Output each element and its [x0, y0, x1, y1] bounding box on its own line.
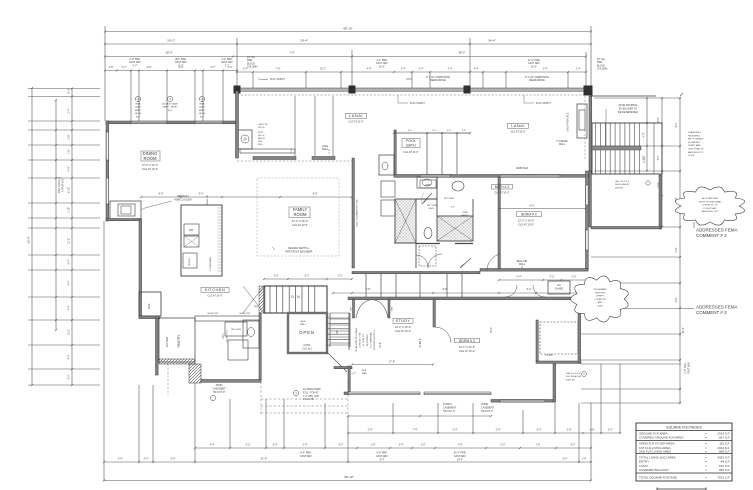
svg-text:DOUBLE CASE-: DOUBLE CASE-	[162, 103, 179, 106]
svg-text:2' OVERHANG: 2' OVERHANG	[209, 256, 212, 271]
svg-text:2'-4": 2'-4"	[368, 429, 373, 432]
svg-text:WALL: WALL	[322, 148, 329, 151]
leader line fema 2	[693, 222, 695, 228]
svg-text:4'-8": 4'-8"	[675, 247, 678, 252]
svg-text:ENCL.: ENCL.	[429, 208, 436, 210]
svg-text:ROOM: ROOM	[293, 212, 307, 217]
svg-text:=: =	[705, 450, 707, 454]
svg-text:3'-0" HANDRAIL: 3'-0" HANDRAIL	[369, 331, 372, 348]
svg-text:FLAT SOFFIT: FLAT SOFFIT	[270, 78, 285, 81]
dimension line kitchen interior	[141, 196, 352, 198]
wall right outer lower	[578, 299, 581, 363]
svg-text:LANAI: LANAI	[511, 123, 525, 128]
svg-text:CLG AT 10'-0": CLG AT 10'-0"	[403, 151, 418, 154]
svg-text:R LANDING: R LANDING	[688, 141, 700, 144]
svg-text:9'-4": 9'-4"	[380, 458, 385, 461]
svg-text:6'-2": 6'-2"	[179, 64, 184, 67]
svg-text:CLG AT 10'-0": CLG AT 10'-0"	[142, 167, 158, 171]
dashed line below pantry	[167, 364, 169, 395]
svg-text:=: =	[705, 475, 707, 479]
wc toilet room	[379, 155, 394, 175]
counter wine cooler	[110, 201, 141, 219]
svg-text:RFG: RFG	[258, 144, 263, 146]
svg-text:LANAI: LANAI	[349, 113, 363, 118]
svg-text:6'-2": 6'-2"	[501, 444, 506, 447]
svg-text:3'-4": 3'-4"	[399, 444, 404, 447]
dimension tick row top-middle	[237, 71, 470, 73]
staircase upper right	[592, 123, 662, 174]
svg-text:BE DETERMINED: BE DETERMINED	[618, 111, 638, 114]
hatched corner block entry	[189, 364, 201, 383]
svg-text:3'-4": 3'-4"	[453, 429, 458, 432]
laundry boxes hall	[381, 181, 395, 197]
label linen	[420, 180, 436, 188]
svg-text:2'-0": 2'-0"	[550, 276, 555, 279]
svg-text:WALL: WALL	[559, 143, 566, 146]
svg-text:6'-10": 6'-10"	[68, 187, 71, 193]
pantry room	[159, 318, 195, 362]
svg-text:4'-0": 4'-0"	[643, 132, 646, 137]
handrail diagonal at entry steps	[327, 352, 347, 372]
svg-text:8'-0": 8'-0"	[159, 193, 164, 196]
svg-text:PER TRUSS ENGINEER: PER TRUSS ENGINEER	[286, 250, 313, 253]
svg-text:2'-4": 2'-4"	[401, 68, 406, 71]
bath2 toilet	[424, 228, 432, 239]
svg-text:FLAT SOFFIT: FLAT SOFFIT	[410, 102, 425, 105]
svg-text:1'-10": 1'-10"	[68, 207, 71, 213]
svg-text:353 S.F.: 353 S.F.	[719, 468, 730, 472]
vertical line right of stairs	[646, 98, 648, 171]
svg-text:7'-8": 7'-8"	[536, 444, 541, 447]
porch dashed steps	[261, 398, 348, 400]
hatched wall left of dn stairs	[259, 286, 265, 313]
wall foyer	[139, 316, 160, 319]
bath2 sink oval	[452, 181, 464, 191]
svg-text:2'-4": 2'-4"	[543, 68, 548, 71]
svg-text:1'-4": 1'-4"	[576, 68, 581, 71]
beam 8x24 composite above lanai	[237, 88, 591, 91]
svg-text:WALL: WALL	[300, 323, 307, 326]
svg-text:6'-2": 6'-2"	[571, 444, 576, 447]
landing room east walls	[659, 175, 661, 229]
svg-text:2ND FLR LIVING AREA: 2ND FLR LIVING AREA	[639, 450, 671, 454]
pool bath west wall	[394, 130, 396, 174]
svg-text:41'-4": 41'-4"	[681, 327, 685, 334]
dimension tick row top-right	[470, 71, 586, 73]
svg-text:BUILDER NOTES 1: BUILDER NOTES 1	[374, 329, 376, 349]
svg-text:WALL: WALL	[362, 372, 368, 375]
vertical drop lines from window ticks	[130, 71, 132, 122]
island dishwasher box	[184, 224, 199, 235]
svg-text:=: =	[705, 468, 707, 472]
utility closet	[228, 340, 248, 360]
wall left outer with windows	[106, 121, 109, 221]
svg-text:12'-0" X 14'-0": 12'-0" X 14'-0"	[518, 219, 534, 223]
svg-text:2'-7": 2'-7"	[211, 66, 216, 69]
center staircase dn	[264, 286, 327, 313]
svg-text:999 S.F.: 999 S.F.	[719, 450, 730, 454]
wall bdrm3 bay south	[348, 392, 420, 395]
wall pool bath and lanai sill	[394, 175, 591, 178]
svg-text:3'-6": 3'-6"	[274, 275, 279, 278]
svg-text:WALL: WALL	[519, 263, 526, 266]
open stairwell box	[288, 313, 327, 353]
svg-text:FOYER: FOYER	[165, 336, 169, 347]
svg-text:49 S.F.: 49 S.F.	[721, 459, 731, 463]
svg-text:CODE: CODE	[688, 155, 695, 157]
svg-text:5'-4": 5'-4"	[68, 259, 71, 264]
arch cased opening to study	[356, 300, 388, 319]
wall pantry west	[156, 318, 159, 375]
svg-text:2868 SH: 2868 SH	[615, 187, 624, 189]
dashed soffit line under beam	[237, 94, 591, 96]
svg-text:12 FEET ABV: 12 FEET ABV	[703, 207, 717, 210]
diagonal brace lines at stair corner	[243, 286, 264, 313]
svg-text:2'-4": 2'-4"	[118, 458, 123, 461]
svg-text:2'-4": 2'-4"	[419, 68, 424, 71]
svg-text:UTIL: UTIL	[222, 333, 225, 339]
svg-text:4'-0": 4'-0"	[68, 354, 71, 359]
wall bedroom2 south bell air wall	[480, 269, 588, 272]
bath2 door leaf 3080	[422, 193, 432, 204]
wall bedroom2 west	[498, 177, 500, 271]
svg-text:BATH: BATH	[406, 144, 416, 148]
svg-text:5'-0": 5'-0"	[246, 444, 251, 447]
svg-text:BDB: BDB	[362, 370, 367, 372]
svg-text:13'-0" X 12'-6": 13'-0" X 12'-6"	[395, 325, 411, 329]
svg-text:20'-4": 20'-4"	[457, 458, 463, 461]
pantry south hatched wall	[159, 359, 195, 364]
svg-text:1'-4": 1'-4"	[582, 458, 587, 461]
svg-text:10 FEET 10" TO: 10 FEET 10" TO	[702, 205, 718, 207]
svg-text:BMA: BMA	[136, 103, 141, 106]
svg-text:BATH # 2: BATH # 2	[495, 185, 510, 189]
svg-text:BEAM ABOVE: BEAM ABOVE	[529, 79, 545, 82]
svg-text:8'-2": 8'-2"	[68, 329, 71, 334]
svg-text:2'-8": 2'-8"	[567, 429, 572, 432]
svg-text:7'-4": 7'-4"	[291, 149, 293, 154]
svg-text:OPEN: OPEN	[299, 330, 315, 335]
svg-text:10'-2": 10'-2"	[379, 65, 385, 68]
wall east of bay	[553, 364, 556, 402]
svg-text:36'-2": 36'-2"	[458, 51, 465, 55]
leader line fema 3	[624, 308, 694, 310]
svg-text:68'-10": 68'-10"	[344, 475, 353, 479]
svg-text:4'-0": 4'-0"	[408, 130, 413, 132]
arch jamb walls	[353, 299, 355, 318]
island range box	[184, 236, 199, 247]
svg-text:5'-8": 5'-8"	[171, 458, 176, 461]
svg-text:SGL HG ALUM: SGL HG ALUM	[566, 375, 581, 378]
svg-text:PDS: PDS	[258, 141, 263, 143]
svg-text:ROOM: ROOM	[143, 156, 157, 161]
revision cloud fema comment 2	[675, 187, 744, 225]
svg-text:AND: AND	[598, 301, 603, 304]
svg-text:2'-8": 2'-8"	[590, 429, 595, 432]
svg-text:COVERED GROUND FLR AREA: COVERED GROUND FLR AREA	[639, 435, 683, 439]
svg-text:TEMP: TEMP	[462, 212, 468, 214]
svg-text:CLG AT 10'-0": CLG AT 10'-0"	[459, 349, 475, 353]
refrigerator closet	[139, 292, 161, 316]
svg-text:3'-4": 3'-4"	[144, 458, 149, 461]
svg-text:=: =	[705, 435, 707, 439]
dimension tick row bottom tier upper	[348, 432, 620, 434]
svg-text:ON DEMAND: ON DEMAND	[593, 288, 607, 291]
svg-text:2'-3": 2'-3"	[451, 207, 455, 209]
svg-text:HOOD: HOOD	[258, 127, 265, 129]
svg-text:STAIR/GUA +: STAIR/GUA +	[688, 131, 702, 134]
circled number 4 bottom	[293, 390, 298, 395]
svg-text:3'-4": 3'-4"	[608, 429, 613, 432]
wall hall south / closets	[352, 272, 480, 274]
svg-text:PANTRY: PANTRY	[177, 334, 181, 348]
svg-text:2'-6": 2'-6"	[338, 275, 343, 278]
svg-text:ENTRY: ENTRY	[639, 459, 649, 463]
svg-text:COLUMN: COLUMN	[597, 68, 608, 71]
svg-text:6'-0": 6'-0"	[303, 444, 308, 447]
svg-text:BMA: BMA	[200, 103, 205, 106]
svg-text:SEA LEVEL 13'0": SEA LEVEL 13'0"	[701, 210, 718, 213]
kitchen counter south	[195, 316, 261, 321]
svg-text:CLG AT 10'-0": CLG AT 10'-0"	[226, 329, 229, 342]
hall closet door arcs east	[505, 285, 517, 297]
column 16x16 cmu block 4	[584, 86, 593, 96]
svg-text:19'-4": 19'-4"	[300, 39, 308, 43]
svg-text:12 TR: 12 TR	[644, 157, 646, 163]
svg-text:8'-0": 8'-0"	[530, 205, 535, 208]
svg-text:3'-0": 3'-0"	[273, 444, 278, 447]
svg-text:667 S.F.: 667 S.F.	[719, 435, 730, 439]
outdoor kitchen counter	[240, 149, 295, 153]
svg-text:8'-2": 8'-2"	[675, 122, 678, 127]
svg-text:10'-2": 10'-2"	[419, 342, 422, 348]
svg-text:4'-8": 4'-8"	[147, 66, 152, 69]
svg-text:2'-8": 2'-8"	[371, 444, 376, 447]
svg-text:RE: IF TREADS: RE: IF TREADS	[688, 138, 704, 141]
svg-text:MICRO: MICRO	[189, 258, 191, 266]
dimension line 18'-2 / 36'-2 top tier3	[105, 56, 586, 58]
svg-text:GBL 2'-8 X 6'-8: GBL 2'-8 X 6'-8	[615, 181, 630, 183]
svg-text:12'-0" X 14'-6": 12'-0" X 14'-6"	[459, 345, 475, 349]
svg-text:AND BUILD TO: AND BUILD TO	[688, 151, 704, 154]
svg-text:REF.: REF.	[147, 303, 151, 309]
wall family room north load wall	[253, 157, 296, 160]
svg-text:8'-0": 8'-0"	[200, 116, 205, 118]
svg-text:CHASE: CHASE	[555, 287, 564, 290]
svg-text:3'-2": 3'-2"	[657, 155, 660, 160]
svg-text:17'-0" X 18'-0": 17'-0" X 18'-0"	[292, 219, 308, 223]
revision cloud fema comment 3	[571, 276, 629, 322]
bath2 closet rect	[419, 246, 436, 266]
svg-text:6'-2": 6'-2"	[339, 444, 344, 447]
svg-text:GAS FIREPLACE: GAS FIREPLACE	[567, 112, 570, 131]
svg-text:9'-8": 9'-8"	[313, 193, 318, 196]
svg-text:CAST ABV.: CAST ABV.	[300, 455, 312, 458]
svg-text:3'-8": 3'-8"	[675, 297, 678, 302]
dimension line left tier2	[55, 100, 57, 330]
bath2 walls	[436, 177, 438, 216]
bdrm3 door leaf diagonal	[460, 258, 471, 268]
svg-text:STUDY: STUDY	[396, 319, 411, 323]
square footage table	[636, 423, 732, 481]
svg-text:BDB: BDB	[301, 321, 306, 323]
svg-text:GBL 3'-0 X 5'-0: GBL 3'-0 X 5'-0	[566, 373, 582, 375]
svg-text:13 RIS AT 7 3/4": 13 RIS AT 7 3/4"	[359, 332, 362, 348]
svg-text:A/C PLATFORM: A/C PLATFORM	[702, 197, 718, 200]
svg-text:12 TR AT 10": 12 TR AT 10"	[362, 333, 365, 346]
svg-text:=: =	[705, 459, 707, 463]
interior dim row above study	[333, 292, 580, 294]
svg-text:UP: UP	[335, 330, 339, 334]
svg-text:3'-4": 3'-4"	[474, 68, 479, 71]
dimension line bottom tier2	[104, 461, 591, 463]
right extension lines	[594, 97, 681, 99]
wall right outer bedroom2	[586, 171, 589, 270]
svg-text:3'-0": 3'-0"	[572, 276, 577, 279]
svg-text:BEAM ABOVE: BEAM ABOVE	[430, 79, 446, 82]
svg-text:CL BH: CL BH	[546, 354, 553, 357]
svg-text:TEMPT ARE: TEMPT ARE	[688, 144, 701, 147]
svg-text:MENT: MENT	[135, 110, 142, 112]
svg-text:KITCHEN: KITCHEN	[205, 287, 225, 292]
svg-text:4'-0": 4'-0"	[68, 166, 71, 171]
svg-text:2'-4": 2'-4"	[447, 130, 452, 132]
svg-text:SQUARE FOOTAGES: SQUARE FOOTAGES	[666, 426, 702, 430]
bath2 shower hatched right	[437, 216, 473, 241]
pool bath partition walls	[426, 133, 428, 174]
column 16x16 cmu block 3	[464, 86, 471, 94]
wall porch front	[201, 380, 261, 383]
svg-text:HD AT 8'-0": HD AT 8'-0"	[213, 391, 225, 394]
svg-text:CLG AT 10'-0": CLG AT 10'-0"	[207, 295, 222, 298]
svg-text:3050 SH: 3050 SH	[566, 379, 575, 381]
exterior entry steps left of study	[330, 313, 350, 343]
dimension line right inner tier	[661, 98, 663, 227]
bay window dim line	[348, 415, 491, 417]
svg-text:10080 SGD: 10080 SGD	[516, 167, 529, 170]
dimension extension lines top	[104, 26, 106, 121]
svg-text:CLG AT 10'-0": CLG AT 10'-0"	[494, 192, 509, 195]
family room tray ceiling dashed	[257, 178, 339, 256]
wall west of entry	[259, 313, 261, 380]
dimension tick row bottom tier1	[195, 447, 591, 449]
kitchen pantry cabinets	[225, 322, 247, 336]
svg-text:CLG AT 10'-0": CLG AT 10'-0"	[348, 121, 363, 124]
svg-text:2'-4": 2'-4"	[432, 130, 437, 132]
dimension line right outer	[679, 98, 681, 403]
svg-text:WTR HTR: WTR HTR	[595, 292, 606, 294]
window labels above dining with circled 4	[135, 96, 140, 101]
svg-text:9'-4": 9'-4"	[527, 288, 532, 291]
svg-text:2'-8": 2'-8"	[109, 66, 114, 69]
svg-text:9'-4": 9'-4"	[517, 276, 522, 279]
svg-text:2'-7": 2'-7"	[225, 64, 230, 67]
svg-text:2'-8": 2'-8"	[462, 130, 467, 132]
wall foyer inner west	[139, 219, 142, 318]
dimension line 68'-10 overall top	[105, 31, 591, 33]
svg-text:HD AT 8'-0": HD AT 8'-0"	[443, 410, 455, 413]
svg-text:4'-4": 4'-4"	[68, 280, 71, 285]
powder room fixtures	[248, 328, 255, 337]
svg-text:FLAT SOFFIT: FLAT SOFFIT	[536, 102, 551, 105]
svg-text:19'-2": 19'-2"	[167, 39, 175, 43]
svg-text:5'-2": 5'-2"	[305, 275, 310, 278]
dimension tick row top-left windows	[105, 70, 237, 72]
dimension hall bottom	[499, 279, 588, 281]
svg-text:W/ NOSING: W/ NOSING	[367, 334, 369, 346]
svg-text:CLG AT 10'-0": CLG AT 10'-0"	[395, 329, 411, 333]
column 16x16 cmu block 1	[234, 86, 241, 94]
svg-text:SD LS: SD LS	[258, 135, 265, 137]
svg-text:CASE-: CASE-	[199, 106, 206, 109]
svg-text:7'-4": 7'-4"	[413, 429, 418, 432]
svg-text:=: =	[705, 464, 707, 468]
svg-text:2'-8": 2'-8"	[68, 134, 71, 139]
svg-text:1'-0": 1'-0"	[289, 51, 294, 55]
bath2 shower X right	[437, 216, 473, 241]
svg-text:CLG AL2: CLG AL2	[302, 347, 312, 350]
svg-text:6'-0": 6'-0"	[68, 88, 71, 93]
svg-text:CAST ABV.: CAST ABV.	[688, 362, 691, 374]
svg-text:2'-8": 2'-8"	[366, 288, 371, 291]
wall vertical frame at x237	[236, 91, 239, 158]
svg-text:BOWL YR: BOWL YR	[207, 195, 209, 205]
svg-text:68'-10": 68'-10"	[343, 27, 352, 31]
dimension 8'-0 in bdrm2	[499, 208, 586, 210]
svg-text:POOL: POOL	[406, 139, 416, 143]
svg-text:WINE COOLER: WINE COOLER	[174, 198, 191, 201]
svg-text:8'-0": 8'-0"	[168, 110, 173, 112]
svg-text:LANAI: LANAI	[639, 464, 648, 468]
wall west of hall built-in cabinetry	[352, 158, 354, 268]
pool bath dim texts	[393, 132, 471, 134]
svg-text:7'-8": 7'-8"	[276, 68, 281, 71]
wall south right section	[491, 400, 555, 403]
grill alcove outdoor kitchen	[238, 130, 252, 149]
svg-text:BUILT-IN CABINETRY TBD: BUILT-IN CABINETRY TBD	[356, 199, 359, 226]
svg-text:VERIFY: VERIFY	[596, 296, 604, 298]
svg-text:17'-6" X 13'-2": 17'-6" X 13'-2"	[142, 163, 158, 167]
svg-text:3'-4": 3'-4"	[68, 374, 71, 379]
svg-text:8'-6": 8'-6"	[443, 288, 448, 291]
svg-text:SET TEMP: SET TEMP	[444, 198, 455, 200]
dashed line lanai floor	[237, 160, 352, 162]
svg-text:2'-7": 2'-7"	[122, 66, 127, 69]
svg-text:HD AT: HD AT	[199, 112, 206, 115]
svg-text:CLG AT 10'-0": CLG AT 10'-0"	[292, 223, 308, 227]
svg-text:3/8" TEMP: 3/8" TEMP	[427, 205, 438, 207]
svg-text:2'-7": 2'-7"	[133, 64, 138, 67]
svg-text:MENT: MENT	[199, 110, 206, 112]
svg-text:GRILL W/: GRILL W/	[258, 124, 268, 126]
dimension line 68'-10 overall bottom	[104, 480, 591, 482]
svg-text:BDRM # 3: BDRM # 3	[459, 339, 475, 343]
svg-text:TOP AT 8'-0": TOP AT 8'-0"	[62, 178, 65, 192]
svg-text:4'-0": 4'-0"	[367, 68, 372, 71]
svg-text:4'-0": 4'-0"	[68, 305, 71, 310]
svg-text:SIZE: SIZE	[598, 306, 603, 308]
closet cl bh walls	[536, 320, 538, 361]
svg-text:ADDRESSES FEMA: ADDRESSES FEMA	[696, 228, 738, 233]
svg-text:10'-2": 10'-2"	[531, 65, 537, 68]
svg-text:17'-8": 17'-8"	[389, 362, 395, 364]
svg-text:RE-WORKS: RE-WORKS	[688, 135, 701, 137]
svg-text:18'-2": 18'-2"	[165, 51, 172, 55]
bath2 vanity	[417, 177, 437, 188]
svg-text:2'-4": 2'-4"	[448, 68, 453, 71]
kitchen island	[181, 205, 222, 276]
svg-text:15'-4": 15'-4"	[490, 327, 493, 333]
